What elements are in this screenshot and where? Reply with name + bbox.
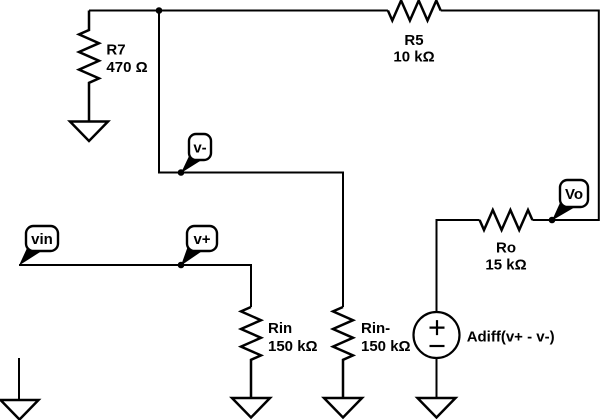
svg-text:10 kΩ: 10 kΩ <box>393 49 434 66</box>
source minus sign <box>430 345 445 347</box>
svg-text:470 Ω: 470 Ω <box>106 59 147 76</box>
node Vo flag tail <box>552 200 576 221</box>
svg-text:Ro: Ro <box>496 240 516 257</box>
node v+ flag box <box>187 226 217 251</box>
svg-text:Adiff(v+ - v-): Adiff(v+ - v-) <box>467 328 555 345</box>
svg-text:15 kΩ: 15 kΩ <box>485 257 526 274</box>
wire: Ro left lead down to source V1 top <box>437 220 480 312</box>
ground below Rin <box>232 398 270 418</box>
node v+ flag tail <box>181 245 203 266</box>
node v- flag tail <box>181 153 203 173</box>
node Vo flag box <box>560 180 588 207</box>
dependent source Adiff circle <box>414 312 460 358</box>
svg-text:v+: v+ <box>193 231 210 248</box>
svg-text:v-: v- <box>193 140 206 157</box>
svg-text:150 kΩ: 150 kΩ <box>361 338 411 355</box>
wire: top net from R7 top to R5 left <box>89 10 388 12</box>
svg-text:R7: R7 <box>106 41 125 58</box>
resistor Rin with leads <box>241 307 261 398</box>
node v+ junction dot <box>178 262 185 269</box>
resistor Ro <box>480 210 533 230</box>
ground isolated bottom-left <box>1 400 39 420</box>
resistor R7 with leads <box>79 11 99 122</box>
node v- flag box <box>189 134 211 160</box>
svg-text:R5: R5 <box>404 32 423 49</box>
wire: source bottom to ground <box>436 358 438 398</box>
source plus sign <box>430 320 445 335</box>
wire: stub for isolated ground bottom-left <box>18 358 20 400</box>
ground below Rin- <box>324 398 362 418</box>
resistor Rin- with leads <box>333 307 353 398</box>
ground below source <box>418 398 456 418</box>
svg-text:vin: vin <box>31 231 53 248</box>
wire: R5 right, down right edge, to Ro right lead <box>441 11 599 221</box>
node vin flag tail <box>19 246 43 266</box>
node v- junction dot <box>178 169 185 176</box>
svg-text:Rin-: Rin- <box>361 320 390 337</box>
wire: from top junction down, right to Rin- top <box>159 11 343 308</box>
node at top junction (dot) <box>156 7 163 14</box>
svg-text:Vo: Vo <box>565 186 583 203</box>
svg-text:150 kΩ: 150 kΩ <box>268 338 318 355</box>
ground below R7 <box>70 122 108 142</box>
node Vo junction dot <box>549 217 556 224</box>
resistor R5 <box>388 1 441 21</box>
wire: vin net to Rin top <box>19 265 251 307</box>
node vin flag box <box>26 226 58 251</box>
svg-text:Rin: Rin <box>268 320 292 337</box>
